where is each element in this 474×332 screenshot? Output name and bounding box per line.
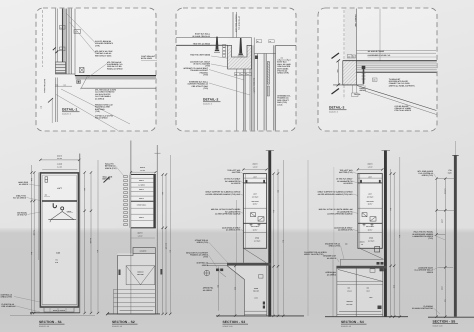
svg-text:AS PER APPROVED SAMPLE: AS PER APPROVED SAMPLE <box>327 213 353 216</box>
S3 right ticks <box>272 172 284 317</box>
S4 bracket symbols <box>362 213 376 221</box>
detail-2 tags under channel <box>235 73 252 76</box>
S3 desk left notes <box>195 239 228 263</box>
S4 right ticks <box>390 172 402 318</box>
S2 counter interior fill <box>118 253 156 314</box>
detail-2 right dim line <box>277 59 291 61</box>
S5 dim verticals <box>436 179 438 317</box>
svg-text:900: 900 <box>234 287 237 290</box>
svg-text:SCALE 1:20: SCALE 1:20 <box>341 325 351 328</box>
S3 shelf line 3 <box>243 222 266 224</box>
detail-3 verticals below curb <box>352 85 354 93</box>
S3 floor line <box>216 315 304 317</box>
svg-text:AS PER APPROVED SAMPLE (TYP) U: AS PER APPROVED SAMPLE (TYP) UNO <box>318 193 353 196</box>
svg-text:3-0: 3-0 <box>389 208 392 211</box>
S5 ticks <box>435 177 446 318</box>
svg-text:PER STRUCT DWG: PER STRUCT DWG <box>95 54 112 57</box>
S4 gap diagonal <box>360 249 384 260</box>
detail-3 dashed border <box>318 8 437 131</box>
svg-text:DETAIL-1: DETAIL-1 <box>62 108 77 112</box>
section S5 group <box>412 141 474 328</box>
S4 wall bracket block <box>380 269 384 272</box>
S4 plus marks <box>363 223 374 226</box>
S4 counter top dark band <box>336 266 387 269</box>
S4 shelf line 2 <box>358 207 382 209</box>
S3 cabinet left line lower <box>242 248 244 262</box>
S2 cabinet top <box>131 174 156 176</box>
S5 floor line <box>428 316 474 318</box>
svg-text:W/ SAND CEM PLAS: W/ SAND CEM PLAS <box>192 35 210 38</box>
detail-3 slab top (thick) <box>343 60 437 62</box>
detail-3 group <box>329 9 437 115</box>
S1 tall wall line <box>79 154 81 314</box>
S2 cabinet bottom <box>131 227 156 229</box>
S3 corner diagonal <box>243 248 266 262</box>
S3 left dim of desk <box>217 267 219 311</box>
detail-1 slab gray strip <box>76 76 157 79</box>
detail-2 dashed border <box>176 8 296 131</box>
S3 support bracket marks <box>216 269 223 272</box>
svg-text:AS SPECD: AS SPECD <box>203 289 213 292</box>
detail-3 slab band fill <box>357 61 437 72</box>
svg-text:2-11: 2-11 <box>441 287 444 290</box>
detail-3 slab soffit <box>357 72 437 74</box>
svg-text:2-10 1/2: 2-10 1/2 <box>164 243 167 249</box>
S4 left extra note <box>325 271 336 276</box>
S2 left tall line <box>130 141 132 314</box>
svg-text:BY MAIN CONTRACTOR: BY MAIN CONTRACTOR <box>412 307 433 310</box>
svg-text:AS SPECD: AS SPECD <box>327 273 337 276</box>
svg-text:SECTION - S2: SECTION - S2 <box>112 320 135 324</box>
page background lower <box>0 233 474 332</box>
detail-1 slab soffit line <box>81 87 156 89</box>
S1 rod circle <box>61 207 64 210</box>
detail-3 curb bottom line <box>333 84 364 86</box>
S2 floor line <box>107 313 160 315</box>
svg-text:U.N.O.: U.N.O. <box>277 103 283 106</box>
S3 loft line <box>243 177 266 179</box>
S3 left note row 3 <box>205 191 243 196</box>
svg-text:9-0: 9-0 <box>169 250 172 253</box>
S3 leader vertical from notes <box>236 200 238 263</box>
detail-1 centerline <box>42 10 44 67</box>
S2 right ticks <box>162 173 172 315</box>
svg-text:PER SCHEDULE: PER SCHEDULE <box>2 305 17 308</box>
svg-text:9-0: 9-0 <box>444 300 447 303</box>
detail-2 title <box>203 98 221 106</box>
svg-text:SECTION - S4: SECTION - S4 <box>341 320 364 324</box>
svg-text:AS PER APPROVED SAMPLE (TYP) U: AS PER APPROVED SAMPLE (TYP) UNO <box>205 193 240 196</box>
detail-2 note row 1 <box>192 33 210 38</box>
S5 tick line low <box>438 266 453 268</box>
S3-S4 gap tall dim line <box>307 160 309 316</box>
detail-2 dark blocking strip <box>267 62 269 85</box>
svg-text:SPECD (TYP): SPECD (TYP) <box>329 245 341 248</box>
svg-text:PLY AS SPECD: PLY AS SPECD <box>13 197 27 200</box>
svg-text:UP TO ROOF LVL: UP TO ROOF LVL <box>238 16 241 30</box>
S3 bracket symbols <box>251 213 265 221</box>
S2 counter body <box>118 253 156 314</box>
detail-3 clg line 1 <box>357 50 437 52</box>
S2 right dim line 2 <box>165 175 167 315</box>
svg-text:SPECD (TYP): SPECD (TYP) <box>105 167 117 170</box>
section S4 group <box>318 151 408 329</box>
svg-text:(TYP): (TYP) <box>95 44 100 47</box>
S1 left dim line outer <box>31 165 33 315</box>
svg-text:9-0: 9-0 <box>96 250 99 253</box>
S4 counter interior fill <box>337 269 383 317</box>
svg-text:SCALE 1:20: SCALE 1:20 <box>39 325 49 328</box>
S1 top compartment bracket <box>45 177 48 182</box>
S4 left note row 1 <box>339 169 358 174</box>
S3 left note row 4 <box>211 208 243 215</box>
svg-text:SHUTTER (TYP): SHUTTER (TYP) <box>339 171 353 174</box>
svg-text:SPECD (TYP): SPECD (TYP) <box>197 241 209 244</box>
S3 gap note <box>304 251 327 256</box>
detail-3 soffit connector <box>364 86 366 92</box>
svg-text:(TYP): (TYP) <box>203 74 208 77</box>
S4 left note row 2 <box>336 178 358 185</box>
S2 top-left note <box>105 163 124 177</box>
S3 desk right vertical <box>266 266 268 316</box>
svg-text:DETAIL-2: DETAIL-2 <box>203 98 218 102</box>
svg-text:8-4: 8-4 <box>30 252 33 255</box>
section S1 group <box>1 154 113 329</box>
S2 right dim line 3 <box>169 155 171 314</box>
detail-3 clg line 2 <box>357 52 437 54</box>
S1 left dim ticks <box>30 171 35 314</box>
S2 hinge mark left <box>119 270 121 276</box>
svg-text:TRIM THK AS REQD: TRIM THK AS REQD <box>193 42 211 45</box>
S2 pin strip edge line <box>128 175 130 228</box>
S3 counter small bracket <box>259 275 264 278</box>
svg-text:(VERTICAL PANEL SUPPORT): (VERTICAL PANEL SUPPORT) <box>389 84 415 87</box>
svg-text:AS SPECD: AS SPECD <box>95 97 105 100</box>
S4 counter bracket marks <box>377 262 384 265</box>
detail-1 long leader A <box>61 89 130 124</box>
svg-text:SHUTTER: SHUTTER <box>232 171 241 174</box>
svg-text:DETAIL-3: DETAIL-3 <box>329 106 344 110</box>
svg-text:2-0: 2-0 <box>40 106 43 109</box>
section S2 group <box>105 141 172 329</box>
svg-text:CAB: CAB <box>56 252 61 255</box>
svg-text:SPECD: SPECD <box>427 271 434 274</box>
S1 base block <box>44 307 74 312</box>
S4 counter-left note 1 <box>325 242 344 259</box>
S2 plinth <box>120 310 154 312</box>
S2 hinge mark right <box>160 269 162 275</box>
S3 desk top dark band <box>227 263 271 266</box>
S1 right dim line 3 <box>97 160 99 313</box>
svg-text:2-11: 2-11 <box>393 285 396 288</box>
detail-2 parapet vertical <box>232 12 234 38</box>
S5 top dim tick line <box>437 178 455 180</box>
S1 cabinet inner face lines <box>43 175 77 305</box>
S5 left note 3 <box>414 266 438 273</box>
detail-1 dashed border <box>36 8 156 131</box>
detail-3 dim tick bottom <box>337 83 341 86</box>
S3 wall cap tick <box>266 150 274 152</box>
S4 left dim of counter <box>332 259 334 316</box>
detail-3 corner tick NE upper <box>332 53 340 59</box>
S5 wall double line <box>454 155 457 316</box>
S3 bracket diagonal <box>219 272 226 278</box>
svg-text:AS SPECD (TYP): AS SPECD (TYP) <box>226 229 241 232</box>
detail-2 anchor bolt right <box>238 38 244 56</box>
S3 top dim line <box>243 168 266 170</box>
svg-text:AS SPECD: AS SPECD <box>19 183 29 186</box>
S4 floor dark block <box>378 306 382 310</box>
S5 left note 2 <box>412 231 445 241</box>
S4 counter body sides <box>337 269 383 317</box>
S4 left note row 4 <box>319 208 358 215</box>
svg-text:SCALE 1:20: SCALE 1:20 <box>433 325 443 328</box>
S1 right dim line 1 <box>84 173 86 314</box>
detail-3 corner tick NE lower <box>332 89 340 95</box>
svg-text:SPECD: SPECD <box>202 264 209 267</box>
svg-text:1-3: 1-3 <box>83 188 86 191</box>
detail-2 anchor bolt left <box>214 37 220 53</box>
svg-text:3-0: 3-0 <box>272 210 275 213</box>
detail-1 left dim tick <box>48 98 53 103</box>
detail-3 tag below curb <box>352 93 359 97</box>
S2 shelf-pin strip <box>124 176 128 226</box>
detail-2 small block <box>255 56 258 60</box>
S3 mid dim line <box>234 266 236 316</box>
detail-1 note block 6 <box>95 115 114 120</box>
detail-1 wall below slab <box>56 78 58 123</box>
detail-3 curb tag boxes <box>347 55 355 58</box>
svg-text:CLG: CLG <box>448 171 452 174</box>
svg-text:(TYP): (TYP) <box>203 87 208 90</box>
S2 cabinet right dark side <box>153 175 155 228</box>
section S3 group <box>186 151 327 329</box>
S4 outer left dim line <box>333 167 335 259</box>
detail-2 note row 5 <box>183 67 244 80</box>
S1 title <box>39 320 65 328</box>
svg-text:PARAPET WALL LINE: PARAPET WALL LINE <box>234 15 237 33</box>
detail-2 note row 3 <box>190 54 230 59</box>
svg-text:SCALE 1:20: SCALE 1:20 <box>223 325 233 328</box>
S1 floor line <box>30 312 80 314</box>
svg-text:SECTION - S1: SECTION - S1 <box>39 320 62 324</box>
svg-text:AS PER APPROVED SAMPLE: AS PER APPROVED SAMPLE <box>215 213 241 216</box>
detail-2 blocking strip lower <box>267 86 269 96</box>
detail-3 anchor bolt <box>362 66 366 84</box>
S2 shelves <box>131 178 154 220</box>
S3 cabinet carcass <box>243 174 266 249</box>
detail-2 roof line full <box>176 37 252 39</box>
svg-text:SECTION - S5: SECTION - S5 <box>433 319 456 323</box>
detail-1 long leader B <box>56 95 118 131</box>
S1 cabinet carcass <box>40 173 78 307</box>
svg-text:FIN WALL LINE: FIN WALL LINE <box>354 15 357 28</box>
S5 wall upper stub <box>454 141 456 155</box>
S4 counter diagonal <box>338 270 383 282</box>
S3 left note row 2 <box>224 178 243 185</box>
detail-2 note row 6 <box>188 81 251 96</box>
S3 shelf line 4 <box>243 231 266 233</box>
detail-1 leader to note 1 <box>66 13 95 43</box>
S2 right tall line <box>156 145 158 314</box>
S5 mid tick line <box>437 209 455 211</box>
S4 counter shelf lines <box>337 282 383 285</box>
svg-text:VERIFY ON SITE (TYP): VERIFY ON SITE (TYP) <box>304 253 324 256</box>
svg-text:BLK WALL CAVITY: BLK WALL CAVITY <box>253 78 256 94</box>
detail-3 sloped soffit line 1 <box>357 86 437 111</box>
svg-text:SCALE 1:5: SCALE 1:5 <box>329 111 338 114</box>
S1 gap note <box>103 176 113 183</box>
svg-text:PTD FIN AS SPECD: PTD FIN AS SPECD <box>395 109 412 112</box>
detail-1 slab top chord (thick) <box>75 75 156 77</box>
S1 inner top dim <box>42 168 77 170</box>
detail-3 wall face vertical <box>356 9 358 61</box>
S4 tall dark wall <box>384 151 387 317</box>
detail-3 note right top <box>368 50 437 57</box>
svg-text:AS SPECD: AS SPECD <box>231 182 241 185</box>
detail-1 group <box>40 9 158 131</box>
svg-text:AS SPECD: AS SPECD <box>343 182 353 185</box>
S4 left note row 5 <box>334 226 358 231</box>
svg-text:(TYP): (TYP) <box>203 256 208 259</box>
svg-text:SCALE 1:20: SCALE 1:20 <box>112 325 122 328</box>
S1 hanger <box>48 210 76 222</box>
detail-2 wall gray strip B <box>264 54 266 131</box>
svg-text:AS SPECD: AS SPECD <box>327 257 337 260</box>
S4 left note row 3 <box>318 191 358 196</box>
detail-2 wall gray strip D <box>244 69 246 131</box>
detail-3 hanger rod vertical <box>379 9 381 61</box>
S4 plinth <box>339 311 381 313</box>
S3 door stop marks <box>263 302 265 309</box>
detail-2 group <box>176 12 296 131</box>
detail-1 note block 4 <box>95 89 117 101</box>
S5 left note 4 <box>412 305 440 314</box>
detail-2 note row 2 <box>193 42 228 45</box>
detail-2 inner wall top line <box>254 53 275 55</box>
detail-3 right note block <box>389 78 415 88</box>
S4 counter small box <box>370 269 375 273</box>
svg-text:9-0: 9-0 <box>282 240 285 243</box>
svg-text:1-0 1/2: 1-0 1/2 <box>444 189 447 194</box>
detail-1 note mid-right <box>141 55 157 61</box>
S3 shelf line 2 <box>243 207 266 209</box>
S4 top dim line <box>358 168 382 170</box>
detail-1 note block 5 <box>95 104 113 114</box>
svg-text:TRIM THK VERT MEMB: TRIM THK VERT MEMB <box>190 54 211 57</box>
S4 wall cap tick <box>382 150 391 152</box>
S1 hook <box>53 203 56 208</box>
detail-2 upper slab line <box>176 44 228 46</box>
S3 ledge lines extending left <box>207 262 227 264</box>
svg-text:SPECD (TYP): SPECD (TYP) <box>1 296 13 299</box>
detail-2 wall gray strip C <box>274 45 276 130</box>
S4 counter-left note 2 <box>323 255 339 262</box>
detail-1 masonry block w/ coursing <box>56 62 66 74</box>
detail-1 note block 2 <box>95 50 113 57</box>
detail-1 wall tag boxes <box>60 26 81 51</box>
detail-3 left dim line vertical <box>337 61 339 85</box>
detail-2 upper band light fill <box>177 38 228 45</box>
S5 title <box>433 319 459 327</box>
detail-3 note below curb <box>360 87 367 92</box>
detail-3 title <box>329 106 347 114</box>
S1 top dim line <box>40 159 79 161</box>
S3 cabinet left inner line <box>244 174 246 249</box>
S2 top dim line <box>131 171 156 173</box>
S5 left note 1 <box>418 170 437 178</box>
svg-text:SCALE 1:5: SCALE 1:5 <box>62 113 71 116</box>
detail-3 centerline lower <box>343 85 345 99</box>
S1 loft shelf <box>42 200 77 202</box>
S1 left dim line third <box>38 173 40 261</box>
S4 shelf line 3 <box>358 222 382 224</box>
detail-2 U channel w/ hatch <box>228 45 252 69</box>
S3 right dim line 1 <box>273 174 275 316</box>
detail-3 slab band w/ deck lines <box>357 63 437 71</box>
detail-3 small tag mid <box>372 78 377 82</box>
detail-2 note row 4 <box>190 60 233 68</box>
detail-2 wall gray strip A <box>252 45 255 130</box>
S4 right dim line 2 <box>393 174 395 317</box>
S4 floor line <box>325 316 408 318</box>
S2 title <box>112 320 138 328</box>
svg-text:FIN LVL: FIN LVL <box>354 93 362 96</box>
detail-3 lower right note <box>395 105 413 112</box>
detail-3 note small lower <box>354 93 362 96</box>
svg-text:ANGLE: ANGLE <box>360 89 367 92</box>
svg-text:SPECD (TYP): SPECD (TYP) <box>422 174 434 177</box>
detail-1 wall panel dark edge <box>62 9 64 63</box>
svg-text:FIN AS SPECD: FIN AS SPECD <box>95 117 108 120</box>
detail-1 fin level line <box>55 85 72 87</box>
detail-1 title <box>62 108 80 116</box>
detail-1 blocking box with X <box>80 68 85 73</box>
svg-text:SUSPENDED GYP BD CLG: SUSPENDED GYP BD CLG <box>368 54 391 57</box>
svg-text:AS SPECD (TYP): AS SPECD (TYP) <box>338 229 353 232</box>
S3 plinth <box>245 310 267 312</box>
detail-1 small deck box <box>77 80 81 84</box>
S3 shelf w/ brackets <box>243 182 266 184</box>
detail-3 concrete curb hatched <box>343 61 357 85</box>
S2 counter top box <box>133 248 155 254</box>
detail-1 note block 1 <box>95 40 114 47</box>
S5 tick line mid2 <box>437 233 446 235</box>
S4 shelf line 4 <box>358 231 382 233</box>
S2 right dim line 1 <box>162 175 164 315</box>
S4 under-cabinet dark box <box>375 247 380 253</box>
S4 loft line <box>358 177 382 179</box>
svg-text:MS ANGLE FRAME: MS ANGLE FRAME <box>368 50 385 53</box>
S1 left margin notes <box>18 181 40 186</box>
S1 bottom-left notes <box>1 294 41 303</box>
svg-text:19 THK PLY: 19 THK PLY <box>17 214 28 217</box>
svg-text:EXIST BLK WALL: EXIST BLK WALL <box>43 79 46 93</box>
svg-text:7-4 1/2: 7-4 1/2 <box>33 230 36 235</box>
S3 plus marks <box>250 223 261 226</box>
svg-text:2-10: 2-10 <box>441 220 444 223</box>
S2 wall cap tick <box>155 152 161 154</box>
detail-2 upper slab line right part <box>276 44 297 46</box>
detail-1 slab break diagonal <box>81 76 88 89</box>
S3 title <box>223 320 249 328</box>
detail-1 wall sill line <box>55 73 75 75</box>
S4 right dim line 3 <box>399 157 401 317</box>
S2 floor tick <box>106 312 109 315</box>
S2 mid shelf thick <box>131 200 154 202</box>
S3 desk front vertical <box>244 280 246 316</box>
detail-2 wall stud lines <box>237 38 276 131</box>
